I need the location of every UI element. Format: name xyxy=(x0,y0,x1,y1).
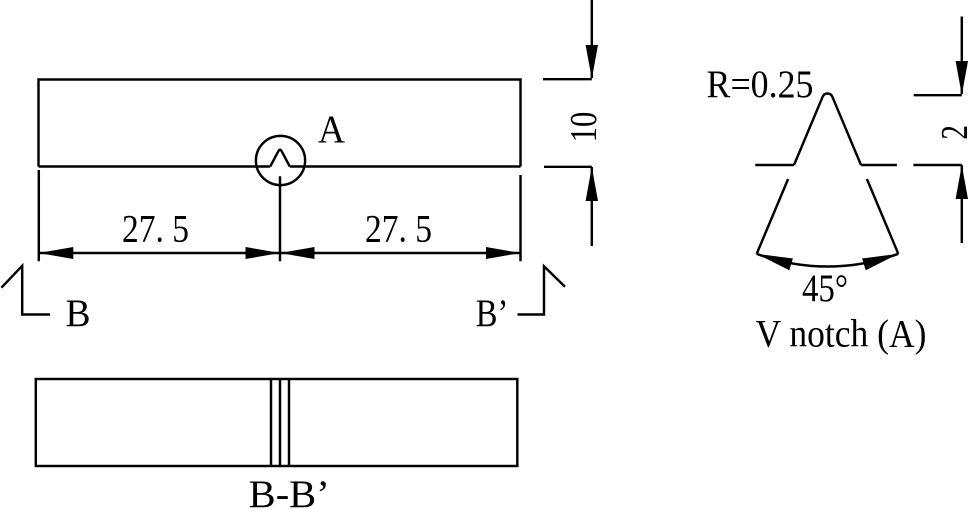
specimen side view: top rectangle outline xyxy=(39,80,521,167)
svg-text:B’: B’ xyxy=(476,292,509,335)
angle dimension arc xyxy=(757,254,899,267)
angle leg left xyxy=(757,179,788,254)
notch line 1 in section xyxy=(270,379,272,466)
arrowhead centre pointing right xyxy=(246,247,281,259)
arrowhead right outward xyxy=(486,247,521,259)
V-notch profile at specimen centre xyxy=(270,150,290,167)
svg-text:B-B’: B-B’ xyxy=(249,473,330,510)
angle leg right xyxy=(867,179,898,254)
notch line 3 in section xyxy=(288,379,290,466)
bottom edge right segment xyxy=(290,165,521,167)
thickness dim 10: lower dim line xyxy=(591,167,593,246)
depth dim 2: lower dim line xyxy=(961,165,963,243)
bottom extension line at shoulder level xyxy=(913,164,961,166)
left extension line xyxy=(38,170,40,261)
detail circle A around notch xyxy=(256,136,305,185)
arrowhead down to notch tip level xyxy=(956,61,968,95)
svg-text:B: B xyxy=(66,292,91,335)
notch line 2 in section xyxy=(279,379,281,466)
section view B-B rectangle xyxy=(36,379,518,466)
arrowhead centre pointing left xyxy=(280,247,315,259)
svg-text:V notch (A): V notch (A) xyxy=(756,312,927,355)
top extension line at tip level xyxy=(914,94,962,96)
arc arrowhead left xyxy=(757,254,793,270)
thickness dim 10: upper dim line xyxy=(591,0,593,78)
svg-text:10: 10 xyxy=(563,112,605,143)
svg-text:27. 5: 27. 5 xyxy=(365,208,432,251)
bottom edge left segment xyxy=(39,165,271,167)
arrowhead left outward xyxy=(39,247,74,259)
arrowhead down at top edge xyxy=(586,45,598,79)
svg-text:45°: 45° xyxy=(802,267,848,310)
bottom extension line xyxy=(544,166,592,168)
arrowhead up at bottom edge xyxy=(586,167,598,201)
arc arrowhead right xyxy=(862,254,898,270)
depth dim 2: upper dim line xyxy=(961,17,963,95)
top extension line xyxy=(543,78,592,80)
right extension line xyxy=(519,175,521,261)
arrowhead up at shoulder level xyxy=(956,165,968,199)
notch detail: left shoulder line xyxy=(755,164,794,166)
section cut marker B-prime xyxy=(518,266,566,314)
svg-text:R=0.25: R=0.25 xyxy=(707,63,814,106)
svg-text:A: A xyxy=(318,108,345,151)
svg-text:2: 2 xyxy=(934,125,968,140)
svg-text:27. 5: 27. 5 xyxy=(122,208,189,251)
notch detail: V profile with rounded tip R0.25 xyxy=(794,94,861,165)
section cut marker B xyxy=(1,266,50,315)
notch detail: right shoulder line xyxy=(861,164,897,166)
centre extension line below notch xyxy=(279,176,281,261)
dimension line 27.5 + 27.5 xyxy=(39,252,521,254)
